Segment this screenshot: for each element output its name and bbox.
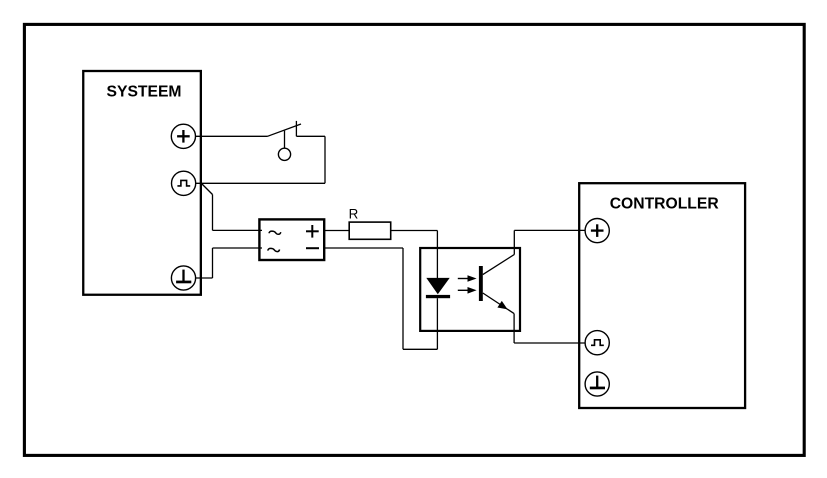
wire LED cathode vertical xyxy=(436,298,438,349)
rectifier AC symbol bottom xyxy=(268,248,280,251)
wire collector vertical xyxy=(513,230,515,254)
wire switch to corner xyxy=(296,135,325,137)
svg-text:R: R xyxy=(349,207,359,222)
wire pulse to rectifier input xyxy=(213,229,263,231)
phototransistor Q1 collector xyxy=(483,255,515,275)
light arrow 1 xyxy=(458,275,477,282)
switch S1 actuator stem xyxy=(284,131,286,149)
wire emitter to controller pulse xyxy=(514,342,585,344)
wire switch return vertical xyxy=(324,136,326,183)
wire ground vertical xyxy=(212,248,214,278)
phototransistor Q1 emitter xyxy=(483,293,514,314)
block SYSTEEM xyxy=(83,71,201,295)
terminal pulse (SYSTEEM) xyxy=(172,171,196,195)
wire rectifier - output xyxy=(324,247,404,249)
optocoupler U1 body xyxy=(420,248,520,331)
wire collector to controller + xyxy=(514,229,585,231)
terminal + (SYSTEEM) xyxy=(171,124,195,148)
light arrow 2 xyxy=(458,287,477,294)
phototransistor Q1 base bar xyxy=(479,266,483,301)
switch S1 blade xyxy=(268,124,302,136)
switch S1 fixed contact xyxy=(295,121,297,136)
wire ground to rectifier input xyxy=(213,247,263,249)
wire LED return vertical xyxy=(402,248,404,349)
rectifier - output label xyxy=(306,247,319,249)
rectifier AC symbol top xyxy=(269,231,281,234)
svg-text:SYSTEEM: SYSTEEM xyxy=(107,83,182,100)
wire LED return bottom xyxy=(403,348,437,350)
svg-text:CONTROLLER: CONTROLLER xyxy=(610,195,719,212)
resistor R xyxy=(349,222,391,239)
wire LED anode vertical xyxy=(436,231,438,279)
wire emitter vertical xyxy=(513,314,515,343)
wire resistor to LED xyxy=(391,230,438,232)
switch S1 actuator knob xyxy=(278,148,290,160)
wire switch return to pulse terminal xyxy=(196,182,325,184)
label R xyxy=(349,207,359,222)
terminal ground (CONTROLLER) xyxy=(585,372,609,396)
wire pulse diagonal xyxy=(202,184,213,195)
LED D1 xyxy=(426,278,450,298)
wire ground horizontal xyxy=(196,277,213,279)
terminal + (CONTROLLER) xyxy=(585,219,609,243)
terminal ground (SYSTEEM) xyxy=(171,266,195,290)
rectifier + output label xyxy=(306,225,319,238)
label CONTROLLER xyxy=(610,195,719,212)
terminal pulse (CONTROLLER) xyxy=(585,331,609,355)
block CONTROLLER xyxy=(579,183,745,408)
label SYSTEEM xyxy=(107,83,182,100)
bridge rectifier B1 xyxy=(259,219,324,260)
wire rectifier + to resistor xyxy=(324,230,350,232)
wire + to switch xyxy=(196,135,268,137)
wire pulse vertical xyxy=(212,195,214,231)
